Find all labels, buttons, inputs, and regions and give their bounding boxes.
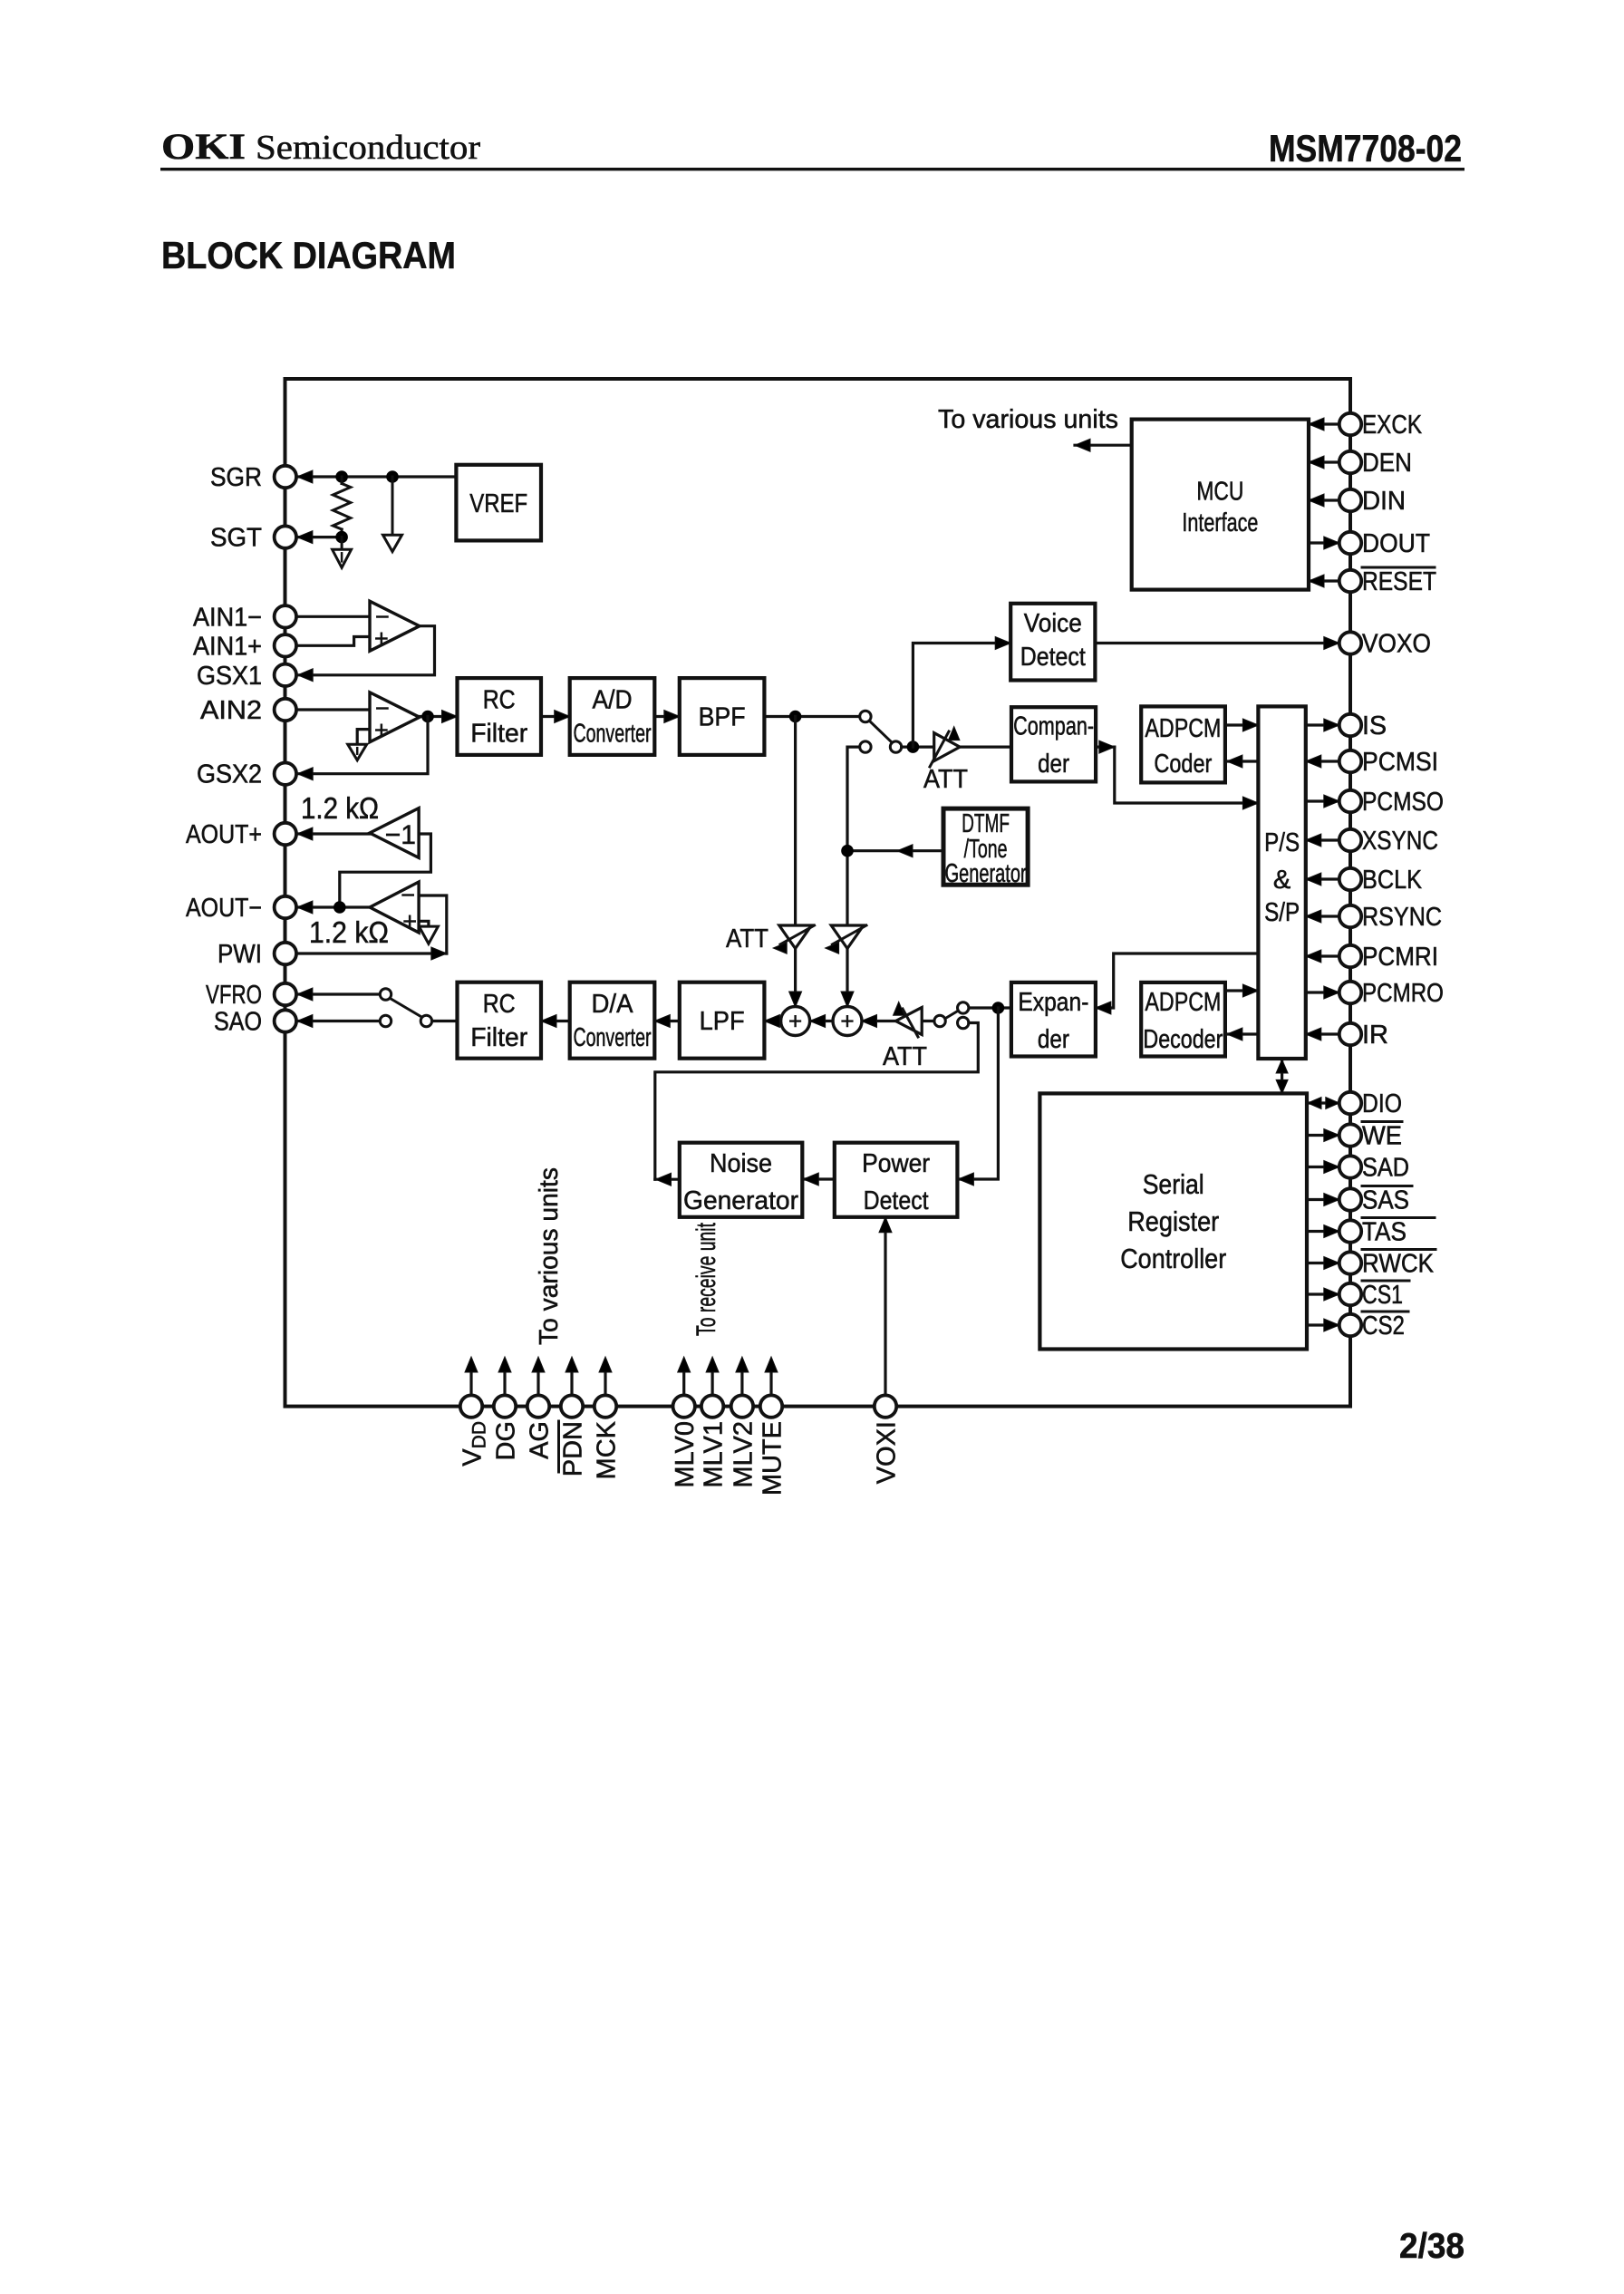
- block ADPCM Coder: [1141, 706, 1225, 782]
- wire RC filter to switch common: [432, 1020, 458, 1022]
- node VREF ground tap: [386, 470, 399, 483]
- label pin VOXI: [873, 1421, 902, 1484]
- svg-text:RSYNC: RSYNC: [1362, 903, 1442, 932]
- svg-text:AOUT+: AOUT+: [186, 820, 262, 849]
- svg-text:ADPCM: ADPCM: [1145, 714, 1221, 743]
- node U2 output junction: [421, 711, 434, 723]
- wire U4 feedback from PWI: [419, 895, 447, 953]
- pin GSX1: [275, 664, 296, 686]
- wire D/A to RC filter: [541, 1020, 570, 1022]
- wire PCMSI to P/S: [1306, 760, 1339, 762]
- node power detect tap: [992, 1002, 1005, 1014]
- svg-text:Register: Register: [1127, 1205, 1219, 1237]
- wire switch common to compander: [902, 745, 934, 748]
- svg-text:AOUT−: AOUT−: [186, 894, 262, 923]
- pin AOUT+: [275, 823, 296, 845]
- pin PWI: [275, 943, 296, 964]
- wire SRC to TAS: [1307, 1230, 1339, 1233]
- svg-text:+: +: [374, 625, 389, 653]
- wire MCU to various units: [1075, 444, 1132, 447]
- wire U3 feedback to AOUT- node: [340, 834, 431, 907]
- svg-text:Detect: Detect: [864, 1186, 929, 1215]
- node AOUT- junction: [333, 901, 346, 914]
- wire U2 + input to ground: [357, 730, 370, 745]
- wire U2 output to GSX2: [297, 717, 428, 774]
- svg-text:Semiconductor: Semiconductor: [256, 129, 480, 167]
- svg-text:Controller: Controller: [1120, 1243, 1226, 1274]
- pin DG: [494, 1395, 516, 1417]
- svg-text:Voice: Voice: [1024, 609, 1082, 638]
- wire summing node1 to LPF: [764, 1020, 780, 1022]
- node SGT junction: [335, 531, 348, 544]
- svg-text:VREF: VREF: [469, 489, 527, 518]
- block BPF: [680, 678, 765, 755]
- svg-text:Interface: Interface: [1182, 508, 1258, 537]
- pin EXCK: [1339, 413, 1361, 435]
- pin VFRO: [275, 983, 296, 1005]
- svg-text:ADPCM: ADPCM: [1145, 988, 1221, 1017]
- wire MLV1 up arrow: [710, 1360, 713, 1395]
- switch SW2 contact DTMF: [860, 741, 871, 752]
- svg-text:DIN: DIN: [1362, 487, 1406, 516]
- svg-text:WE: WE: [1362, 1122, 1402, 1151]
- switch SW3 contact noise: [958, 1017, 969, 1028]
- wire summing node2 to node1: [810, 1020, 833, 1022]
- svg-text:der: der: [1038, 1025, 1069, 1054]
- wire SGT: [297, 536, 342, 538]
- pin MUTE: [760, 1395, 782, 1417]
- block LPF: [680, 982, 765, 1059]
- svg-text:1.2 kΩ: 1.2 kΩ: [309, 915, 389, 949]
- wire RESET to MCU: [1309, 579, 1339, 582]
- pin SAD: [1339, 1156, 1361, 1177]
- svg-text:Serial: Serial: [1143, 1168, 1204, 1200]
- wire ADPCM Coder to P/S: [1225, 723, 1259, 726]
- wire AG up arrow: [536, 1360, 539, 1395]
- svg-text:Compan-: Compan-: [1013, 712, 1094, 741]
- pin IR: [1339, 1023, 1361, 1045]
- node voice detect tap: [907, 740, 920, 753]
- wire P/S to PCMRO: [1306, 991, 1339, 993]
- block RC Filter (receive): [458, 982, 542, 1059]
- wire SRC to DIO (bidirectional): [1307, 1101, 1339, 1104]
- pin PCMSI: [1339, 750, 1361, 772]
- svg-text:PCMSI: PCMSI: [1362, 748, 1438, 777]
- title BLOCK DIAGRAM: [161, 234, 456, 276]
- svg-text:VFRO: VFRO: [206, 981, 262, 1010]
- label pin MLV0: [671, 1421, 700, 1488]
- block Voice Detect: [1010, 604, 1095, 681]
- svg-text:ATT: ATT: [726, 924, 768, 953]
- svg-text:VOXO: VOXO: [1362, 630, 1431, 659]
- pin AIN1-: [275, 605, 296, 627]
- svg-text:Generator: Generator: [945, 859, 1027, 888]
- label pin AG: [526, 1421, 555, 1459]
- svg-text:Detect: Detect: [1020, 643, 1086, 672]
- wire U4 output to AOUT-: [297, 905, 370, 908]
- svg-text:Filter: Filter: [470, 1023, 527, 1052]
- wire P/S to Serial Register Controller (bidirectional): [1281, 1059, 1283, 1093]
- wire XSYNC to P/S: [1306, 838, 1339, 841]
- svg-text:MLV0: MLV0: [671, 1421, 700, 1488]
- pin SAS: [1339, 1188, 1361, 1210]
- label pin PDN: [559, 1421, 588, 1476]
- pin PCMRO: [1339, 982, 1361, 1003]
- pin AG: [527, 1395, 549, 1417]
- svg-text:EXCK: EXCK: [1362, 411, 1423, 440]
- svg-text:MSM7708-02: MSM7708-02: [1269, 127, 1462, 169]
- svg-text:BPF: BPF: [699, 703, 746, 732]
- svg-text:GSX2: GSX2: [197, 760, 262, 789]
- wire SAO from switch: [297, 1020, 380, 1022]
- wire MUTE up arrow: [769, 1360, 772, 1395]
- pin DEN: [1339, 451, 1361, 473]
- wire RC filter to A/D: [541, 715, 570, 718]
- svg-text:Converter: Converter: [574, 1023, 652, 1052]
- svg-text:DOUT: DOUT: [1362, 529, 1430, 558]
- svg-text:ATT: ATT: [923, 765, 968, 794]
- label To various units (rotated): [535, 1167, 564, 1345]
- svg-text:ATT: ATT: [883, 1042, 927, 1071]
- node DTMF junction: [841, 845, 854, 857]
- svg-text:SGT: SGT: [210, 524, 262, 553]
- wire AIN1- to op-amp U1: [297, 615, 370, 618]
- pin DIO: [1339, 1092, 1361, 1114]
- pin DOUT: [1339, 532, 1361, 554]
- svg-text:MUTE: MUTE: [759, 1421, 788, 1495]
- label pin MCK: [593, 1420, 622, 1479]
- pin XSYNC: [1339, 829, 1361, 851]
- pin RSYNC: [1339, 905, 1361, 927]
- svg-text:DG: DG: [492, 1421, 521, 1461]
- svg-text:+: +: [788, 1008, 802, 1035]
- svg-text:−1: −1: [385, 820, 416, 850]
- svg-text:PWI: PWI: [217, 940, 262, 969]
- wire to voice detect: [913, 644, 1010, 748]
- switch SW2 contact from BPF: [860, 711, 871, 721]
- op-amp U1: [370, 601, 420, 651]
- wire MCU to DOUT: [1309, 541, 1339, 544]
- ground (below SGT): [341, 537, 343, 550]
- svg-text:Generator: Generator: [683, 1186, 798, 1215]
- summing node S1: [781, 1007, 810, 1036]
- wire P/S to IS: [1306, 723, 1339, 726]
- wire SRC to WE: [1307, 1134, 1339, 1137]
- pin AIN1+: [275, 634, 296, 656]
- wire noise generator to switch SW3: [655, 1023, 979, 1180]
- svg-text:2/38: 2/38: [1399, 2227, 1464, 2266]
- svg-text:BLOCK DIAGRAM: BLOCK DIAGRAM: [161, 234, 456, 276]
- svg-text:CS1: CS1: [1362, 1281, 1403, 1310]
- label ATT (receive attenuator): [883, 1042, 927, 1071]
- wire EXCK to MCU: [1309, 422, 1339, 425]
- wire AIN2 to op-amp U2: [297, 708, 370, 711]
- svg-text:MLV2: MLV2: [729, 1421, 758, 1488]
- pin PDN: [561, 1395, 583, 1417]
- pin MLV2: [731, 1395, 753, 1417]
- label pin MLV1: [700, 1421, 729, 1488]
- svg-text:+: +: [402, 908, 417, 935]
- switch SW2 blade: [870, 721, 893, 743]
- svg-text:RC: RC: [483, 686, 516, 715]
- wire VOXI to Power Detect: [884, 1218, 886, 1395]
- wire Expander output to switch SW3: [969, 1006, 1011, 1009]
- wire IR to P/S: [1306, 1032, 1339, 1035]
- pin MLV0: [673, 1395, 695, 1417]
- svg-text:SAO: SAO: [214, 1008, 262, 1037]
- svg-text:Coder: Coder: [1154, 750, 1212, 779]
- pin PCMSO: [1339, 790, 1361, 812]
- svg-text:1.2 kΩ: 1.2 kΩ: [301, 791, 379, 825]
- svg-text:GSX1: GSX1: [197, 662, 262, 691]
- label 1.2 kOhm (AOUT+): [301, 791, 379, 825]
- svg-text:DIO: DIO: [1362, 1089, 1402, 1118]
- label To receive unit (rotated): [691, 1223, 721, 1336]
- attenuator ATT3 (compander input): [934, 733, 960, 761]
- wire U1 output to GSX1: [297, 626, 434, 675]
- wire VDD up arrow: [469, 1360, 472, 1395]
- wire BCLK to P/S: [1306, 877, 1339, 880]
- switch SW1 common contact: [420, 1015, 431, 1026]
- wire inverter U3 output to AOUT+: [297, 832, 370, 835]
- wire P/S to ADPCM Coder: [1227, 760, 1306, 762]
- svg-text:OKI: OKI: [161, 126, 246, 167]
- svg-text:D/A: D/A: [592, 990, 634, 1019]
- header: part number MSM7708-02: [1269, 127, 1462, 169]
- pin VOXO: [1339, 632, 1361, 653]
- pin VOXI: [875, 1395, 896, 1417]
- svg-text:AIN1−: AIN1−: [193, 603, 262, 632]
- block Noise Generator: [680, 1143, 803, 1217]
- pin RWCK: [1339, 1252, 1361, 1273]
- resistor (SGR-SGT bias): [341, 477, 343, 484]
- svg-text:MCU: MCU: [1196, 478, 1243, 507]
- wire A/D to BPF: [654, 715, 680, 718]
- pin BCLK: [1339, 868, 1361, 890]
- wire PDN up arrow: [570, 1360, 573, 1395]
- block Compander: [1011, 707, 1096, 781]
- summing node S2: [833, 1007, 862, 1036]
- svg-text:AIN1+: AIN1+: [193, 632, 262, 661]
- wire DEN to MCU: [1309, 460, 1339, 463]
- pin AOUT-: [275, 896, 296, 918]
- switch SW1 contact VFRO: [380, 989, 391, 1000]
- svg-text:Decoder: Decoder: [1143, 1025, 1223, 1054]
- svg-text:RESET: RESET: [1362, 567, 1436, 596]
- pin DIN: [1339, 489, 1361, 511]
- svg-text:To various units: To various units: [938, 405, 1118, 434]
- svg-text:To various units: To various units: [535, 1167, 564, 1345]
- svg-text:AIN2: AIN2: [200, 696, 262, 725]
- wire SRC to SAS: [1307, 1198, 1339, 1201]
- wire DTMF generator output: [847, 849, 943, 852]
- label pin MUTE: [759, 1421, 788, 1495]
- pin SAO: [275, 1010, 296, 1031]
- header rule: [160, 168, 1464, 170]
- wire MLV0 up arrow: [682, 1360, 685, 1395]
- wire U4 + input to ground: [419, 921, 429, 926]
- wire MLV2 up arrow: [740, 1360, 743, 1395]
- node SGR-resistor junction: [335, 470, 348, 483]
- wire SRC to SAD: [1307, 1166, 1339, 1168]
- switch SW3 contact common: [934, 1015, 945, 1026]
- svg-text:DEN: DEN: [1362, 449, 1412, 478]
- wire DIN to MCU: [1309, 498, 1339, 501]
- label pin MLV2: [729, 1421, 758, 1488]
- pin VDD: [460, 1395, 482, 1417]
- ground (VREF tap): [391, 477, 394, 535]
- wire BPF junction down to attenuator: [794, 717, 797, 1007]
- wire VFRO from switch: [297, 992, 380, 995]
- wire P/S to Expander: [1096, 953, 1259, 1008]
- attenuator ATT1 (transmit sidetone): [779, 925, 812, 949]
- svg-text:BCLK: BCLK: [1362, 866, 1423, 895]
- wire SRC to CS2: [1307, 1323, 1339, 1326]
- svg-text:PCMRO: PCMRO: [1362, 979, 1444, 1008]
- wire PWI: [297, 952, 447, 954]
- pin WE: [1339, 1124, 1361, 1146]
- wire BPF to switch SW2: [764, 715, 859, 718]
- svg-text:RC: RC: [483, 990, 516, 1019]
- block A/D Converter: [570, 678, 655, 755]
- svg-text:&: &: [1273, 866, 1290, 895]
- wire LPF to D/A: [654, 1020, 680, 1022]
- svg-text:S/P: S/P: [1264, 898, 1300, 927]
- pin RESET: [1339, 570, 1361, 592]
- svg-text:Converter: Converter: [574, 720, 652, 749]
- label pin VDD: [459, 1421, 490, 1466]
- switch SW3 contact expander: [958, 1002, 969, 1013]
- block Serial Register Controller: [1039, 1093, 1307, 1349]
- svg-text:PDN: PDN: [559, 1421, 588, 1476]
- block VREF: [456, 465, 541, 541]
- pin CS2: [1339, 1314, 1361, 1336]
- op-amp U4: [370, 882, 419, 933]
- pin TAS: [1339, 1220, 1361, 1242]
- svg-text:−: −: [401, 882, 415, 909]
- wire DTMF branch vertical: [847, 747, 860, 1006]
- attenuator ATT4 (receive): [862, 1020, 896, 1022]
- switch SW1 blade: [391, 999, 423, 1018]
- svg-text:SAD: SAD: [1362, 1154, 1409, 1183]
- switch SW2 common contact: [890, 741, 901, 752]
- svg-text:SAS: SAS: [1362, 1186, 1409, 1215]
- svg-text:VOXI: VOXI: [873, 1421, 902, 1484]
- wire SRC to CS1: [1307, 1292, 1339, 1295]
- pin SGT: [275, 526, 296, 547]
- label 1.2 kOhm (AOUT-): [309, 915, 389, 949]
- svg-text:Noise: Noise: [710, 1149, 772, 1178]
- op-amp U2: [370, 692, 420, 742]
- wire U2 output to RC filter: [420, 715, 458, 718]
- svg-text:RWCK: RWCK: [1362, 1250, 1435, 1279]
- svg-text:SGR: SGR: [210, 463, 262, 492]
- svg-text:P/S: P/S: [1264, 828, 1300, 857]
- svg-text:+: +: [840, 1008, 854, 1035]
- pin AIN2: [275, 699, 296, 721]
- switch SW3 blade: [945, 1011, 959, 1019]
- svg-text:PCMRI: PCMRI: [1362, 943, 1438, 972]
- block D/A Converter: [570, 982, 655, 1059]
- wire Power Detect to Noise Generator: [803, 1177, 835, 1180]
- wire AIN1+ to op-amp U1: [297, 637, 370, 646]
- label pin DG: [492, 1421, 521, 1461]
- svg-text:MLV1: MLV1: [700, 1421, 729, 1488]
- svg-text:LPF: LPF: [700, 1007, 745, 1036]
- wire P/S to PCMSO: [1306, 799, 1339, 802]
- attenuator ATT2 (DTMF path): [831, 925, 864, 949]
- pin CS1: [1339, 1283, 1361, 1305]
- svg-text:IS: IS: [1362, 711, 1387, 740]
- wire P/S to ADPCM Decoder: [1227, 1032, 1306, 1035]
- chip outline box: [285, 379, 1351, 1407]
- block ADPCM Decoder: [1141, 982, 1225, 1057]
- pin PCMRI: [1339, 945, 1361, 967]
- label ATT (left attenuator): [726, 924, 768, 953]
- block DTMF/Tone Generator: [943, 808, 1028, 885]
- wire ADPCM Decoder to P/S: [1225, 989, 1259, 992]
- page number 2/38: [1399, 2227, 1464, 2266]
- switch SW1 contact SAO: [380, 1015, 391, 1026]
- svg-text:PCMSO: PCMSO: [1362, 788, 1444, 817]
- svg-text:der: der: [1038, 750, 1069, 779]
- header: OKI logo: [161, 126, 480, 167]
- wire to Power Detect: [958, 1008, 998, 1179]
- wire Voice Detect to VOXO: [1095, 642, 1339, 644]
- wire MCK up arrow: [604, 1360, 606, 1395]
- svg-text:AG: AG: [526, 1421, 555, 1459]
- block MCU Interface: [1132, 420, 1309, 590]
- ground (U2 + input): [348, 744, 367, 760]
- svg-text:Expan-: Expan-: [1018, 988, 1088, 1017]
- wire DG up arrow: [503, 1360, 506, 1395]
- wire SGR to VREF: [297, 475, 457, 478]
- svg-text:CS2: CS2: [1362, 1312, 1405, 1341]
- node BPF output junction: [789, 711, 802, 723]
- svg-text:+: +: [374, 717, 389, 744]
- svg-text:Filter: Filter: [470, 720, 527, 749]
- block P/S & S/P: [1258, 706, 1305, 1059]
- pin IS: [1339, 714, 1361, 736]
- wire SRC to RWCK: [1307, 1262, 1339, 1264]
- inverter U3 (-1): [370, 808, 419, 858]
- svg-text:XSYNC: XSYNC: [1362, 827, 1438, 856]
- block Expander: [1011, 982, 1096, 1057]
- wire Compander output to P/S: [1096, 745, 1115, 748]
- wire RSYNC to P/S: [1306, 915, 1339, 917]
- block Power Detect: [835, 1143, 958, 1217]
- block RC Filter (transmit): [458, 678, 542, 755]
- svg-text:A/D: A/D: [593, 686, 633, 715]
- svg-text:Power: Power: [862, 1149, 930, 1178]
- label ATT (compander input): [923, 765, 968, 794]
- svg-text:To receive unit: To receive unit: [691, 1223, 721, 1336]
- ground (U4 + input): [419, 926, 438, 944]
- svg-text:MCK: MCK: [593, 1420, 622, 1479]
- pin MCK: [594, 1395, 616, 1417]
- svg-text:IR: IR: [1362, 1021, 1388, 1050]
- wire PCMRI to P/S: [1306, 954, 1339, 957]
- pin SGR: [275, 466, 296, 488]
- svg-text:TAS: TAS: [1362, 1218, 1406, 1247]
- pin GSX2: [275, 763, 296, 785]
- pin MLV1: [701, 1395, 723, 1417]
